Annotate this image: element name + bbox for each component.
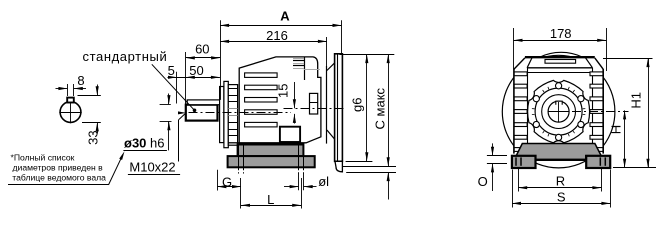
- svg-text:G: G: [222, 174, 232, 189]
- side view: output shaft: [186, 105, 218, 121]
- svg-text:60: 60: [195, 42, 209, 57]
- svg-text:диаметров приведен в: диаметров приведен в: [13, 163, 104, 173]
- footnote: full list of diameters note: [8, 153, 109, 185]
- label o30 h6 (shaft diameter): [123, 136, 166, 151]
- label M10x22 (tapped hole): [128, 160, 180, 175]
- dimension 5 and 50: [168, 63, 220, 104]
- front view: square housing plate: [514, 58, 603, 154]
- mounting flange plate (side view): [335, 54, 343, 162]
- leader from footnote to shaft labels: [109, 151, 125, 185]
- shaft axis centerline: [189, 112, 292, 114]
- o30 dimension arrows at shaft: [160, 94, 172, 151]
- dimension 33 (shaft height over key): [78, 85, 101, 145]
- rear boss near centerline: [310, 93, 318, 114]
- dimension 8 (keyway width): [56, 73, 87, 96]
- front view: horizontal centerline to right: [572, 111, 629, 113]
- front view: gusset lines between flange ears: [532, 87, 585, 136]
- terminal box at body bottom: [280, 127, 300, 142]
- dimension H1: [603, 58, 653, 168]
- front view: left foot: [512, 156, 536, 168]
- front view: terminal box band: [525, 57, 595, 68]
- front view: gearbox housing circle: [502, 55, 615, 168]
- M10x22 leader to shaft end: [178, 111, 186, 161]
- svg-text:178: 178: [550, 26, 572, 41]
- svg-text:O: O: [478, 174, 488, 189]
- svg-text:L: L: [267, 192, 274, 207]
- svg-text:g6: g6: [350, 98, 365, 112]
- front view: base bracket: [516, 144, 601, 160]
- motor body outline: [239, 57, 321, 143]
- front view: name plate: [545, 60, 576, 64]
- motor rear end face: [326, 66, 328, 144]
- svg-text:С макс: С макс: [373, 87, 388, 129]
- dimension 15 (axis offset): [276, 82, 296, 124]
- front view: shaft keyway notch: [556, 101, 562, 105]
- bell adapter slants: [327, 63, 335, 139]
- gearbox ribbed hub: [228, 85, 237, 146]
- front view: scalloped bolt flange: [528, 80, 590, 142]
- key on shaft (side view): [187, 100, 220, 105]
- front view: center cross: [548, 102, 569, 122]
- front view: right cooling fins: [590, 72, 603, 152]
- svg-text:øl: øl: [318, 174, 329, 189]
- svg-text:50: 50: [189, 63, 203, 78]
- svg-text:таблице ведомого вала: таблице ведомого вала: [12, 172, 106, 182]
- dimension L: [241, 178, 302, 209]
- front view: left cooling fins: [514, 72, 527, 152]
- dimension g6 (vertical right of side view): [340, 54, 395, 161]
- svg-text:216: 216: [266, 28, 288, 43]
- dimension S: [512, 170, 611, 208]
- keyway notch on shaft section: [67, 98, 74, 103]
- svg-text:R: R: [556, 174, 565, 189]
- svg-text:S: S: [557, 190, 566, 205]
- front view: right foot: [586, 156, 610, 168]
- node: shaft cross-section circle: [59, 101, 81, 123]
- front view: motor top silhouette: [540, 52, 583, 57]
- svg-text:A: A: [280, 9, 290, 24]
- dimension 178: [514, 26, 607, 71]
- svg-text:33: 33: [85, 130, 100, 144]
- dimension G: [217, 170, 241, 191]
- dimension R: [518, 169, 601, 192]
- svg-text:8: 8: [77, 73, 84, 88]
- dimension ol (hole diameter): [284, 174, 329, 191]
- dimension 60: [186, 42, 221, 105]
- gearbox front plates: [220, 81, 229, 147]
- motor axis centerline: [284, 108, 347, 110]
- label standartny (standard key): [83, 49, 197, 112]
- svg-text:ø30 h6: ø30 h6: [124, 136, 164, 151]
- dimension H: [608, 110, 656, 167]
- dimension A: [220, 9, 341, 100]
- dimension C max: [343, 54, 396, 199]
- flange foot: [335, 161, 342, 172]
- body bottom line extension: [228, 142, 239, 144]
- dimension O: [478, 143, 507, 191]
- base upper pad (side view): [238, 145, 304, 157]
- grille on body top right: [293, 57, 320, 80]
- base lower plate (side view): [228, 156, 315, 167]
- svg-text:*Полный список: *Полный список: [11, 153, 75, 163]
- svg-text:стандартный: стандартный: [83, 49, 168, 64]
- base bolt hole lines: [239, 145, 304, 174]
- svg-text:5: 5: [168, 63, 175, 78]
- svg-text:15: 15: [276, 84, 291, 98]
- dimension 216: [220, 28, 327, 66]
- front view: bolt holes: [533, 83, 584, 141]
- svg-text:H1: H1: [628, 92, 643, 109]
- vent slots on body: [245, 73, 278, 127]
- svg-text:M10x22: M10x22: [129, 160, 175, 175]
- svg-text:H: H: [608, 125, 623, 134]
- front view: hub circles: [535, 88, 582, 135]
